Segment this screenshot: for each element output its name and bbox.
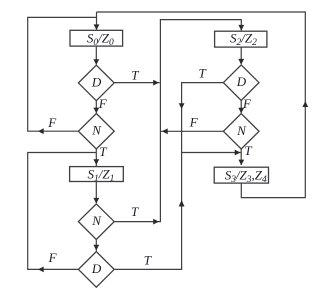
wire N2 true branch riser to S2: [114, 20, 242, 222]
svg-text:D: D: [91, 261, 102, 276]
wire D1 true branch: [114, 82, 159, 84]
wire D1 false branch to N1: [95, 101, 97, 113]
svg-text:F: F: [48, 250, 58, 265]
wire D right true branch down: [182, 83, 224, 153]
wire N1 true branch to S1: [95, 149, 97, 166]
state box S2/Z2: [215, 31, 267, 47]
state box S3/Z3,Z4: [214, 167, 268, 183]
wire D right false branch to N right: [240, 100, 242, 113]
svg-text:T: T: [131, 204, 139, 219]
wire top feedback loop S3 to S0 (right side big loop): [97, 12, 306, 198]
arrowhead S1 to N2: [93, 198, 99, 204]
svg-text:F: F: [47, 115, 57, 130]
arrowhead D right to N right: [238, 108, 244, 114]
decision diamond D1: [78, 65, 114, 101]
svg-text:T: T: [244, 143, 252, 158]
wire left loop N1 false branch: [28, 17, 97, 131]
svg-text:F: F: [98, 96, 108, 111]
state box S0/Z0: [70, 30, 123, 46]
wire S1 to N2: [95, 182, 97, 204]
wire N2 to D2: [95, 240, 97, 251]
svg-text:D: D: [91, 74, 102, 89]
svg-text:D: D: [236, 74, 247, 89]
wire junction branch into S3 entry: [182, 152, 241, 154]
arrowhead junction into S3 entry: [235, 150, 241, 156]
arrowhead N2 true into riser: [153, 219, 159, 225]
wire S0 to D1: [95, 46, 97, 64]
arrowhead up on right feedback line: [302, 101, 308, 107]
wire S0 entry vertical: [96, 12, 98, 30]
decision diamond N2: [78, 204, 114, 240]
decision diamond N1: [78, 114, 114, 149]
wire D2 false branch loop to S1: [28, 153, 97, 270]
arrowhead S0 to D1: [93, 59, 99, 65]
arrowhead D2 false left: [38, 267, 44, 273]
arrowhead S2 to D right: [238, 59, 244, 65]
arrowhead N right to S3: [238, 160, 244, 166]
svg-text:F: F: [242, 96, 252, 111]
arrowhead down on D right true riser: [179, 103, 185, 109]
arrowhead into S0: [94, 24, 100, 30]
svg-text:F: F: [189, 114, 199, 129]
decision diamond D2: [78, 252, 114, 288]
arrowhead up on D2 true riser: [179, 200, 185, 207]
arrowhead N2 to D2: [93, 245, 99, 251]
wire N right false branch: [161, 130, 223, 132]
svg-text:T: T: [199, 66, 207, 81]
arrowhead N1 false left: [38, 128, 44, 134]
svg-text:N: N: [91, 123, 102, 138]
svg-text:N: N: [236, 123, 247, 138]
arrowhead N right false left: [162, 128, 168, 134]
wire S2 to D right: [240, 47, 242, 64]
svg-text:N: N: [91, 213, 102, 228]
arrowhead N1 to S1: [93, 159, 99, 165]
arrowhead D1 true into riser: [153, 80, 159, 86]
svg-text:T: T: [131, 68, 139, 83]
wire D2 true branch riser: [114, 153, 181, 270]
svg-text:T: T: [144, 253, 152, 268]
decision diamond N right: [223, 114, 259, 149]
wire N right true branch to S3: [240, 149, 242, 165]
decision diamond D right: [223, 65, 259, 101]
arrowhead D1 to N1: [93, 108, 99, 114]
svg-text:S3/Z3,Z4: S3/Z3,Z4: [225, 168, 267, 186]
state box S1/Z1: [70, 167, 124, 182]
arrowhead into S2: [238, 25, 244, 31]
svg-text:T: T: [99, 144, 107, 159]
